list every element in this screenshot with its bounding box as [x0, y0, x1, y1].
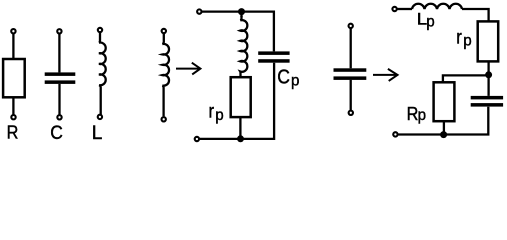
svg-text:L: L	[92, 123, 103, 144]
svg-text:C: C	[277, 65, 290, 87]
svg-text:p: p	[215, 107, 224, 124]
svg-text:r: r	[209, 101, 215, 122]
svg-text:p: p	[426, 13, 435, 30]
svg-text:r: r	[456, 27, 462, 48]
svg-text:C: C	[50, 122, 63, 144]
svg-text:R: R	[407, 103, 419, 124]
svg-text:p: p	[418, 107, 427, 124]
svg-text:R: R	[7, 122, 19, 143]
svg-text:p: p	[291, 72, 300, 89]
svg-text:p: p	[463, 32, 472, 49]
